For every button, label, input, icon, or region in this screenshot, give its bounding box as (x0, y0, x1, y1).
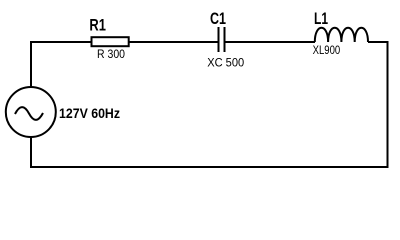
svg-text:C1: C1 (210, 9, 226, 28)
svg-text:L1: L1 (314, 9, 328, 28)
svg-text:127V 60Hz: 127V 60Hz (59, 105, 120, 121)
wire bottom-left up to source (30, 137, 32, 168)
inductor L1 (315, 28, 368, 42)
capacitor C1 (219, 27, 225, 52)
wire capacitor to inductor (226, 41, 316, 43)
svg-text:XL900: XL900 (313, 43, 341, 57)
wire bottom (31, 166, 389, 168)
wire inductor to top-right corner and down (368, 42, 388, 167)
svg-text:XC 500: XC 500 (207, 55, 244, 69)
wire resistor to capacitor (130, 41, 218, 43)
svg-text:R 300: R 300 (97, 47, 125, 61)
wire from source top up to corner and right to resistor (31, 42, 91, 87)
AC source (6, 87, 56, 137)
svg-text:R1: R1 (89, 16, 106, 35)
resistor R1 (92, 37, 129, 46)
